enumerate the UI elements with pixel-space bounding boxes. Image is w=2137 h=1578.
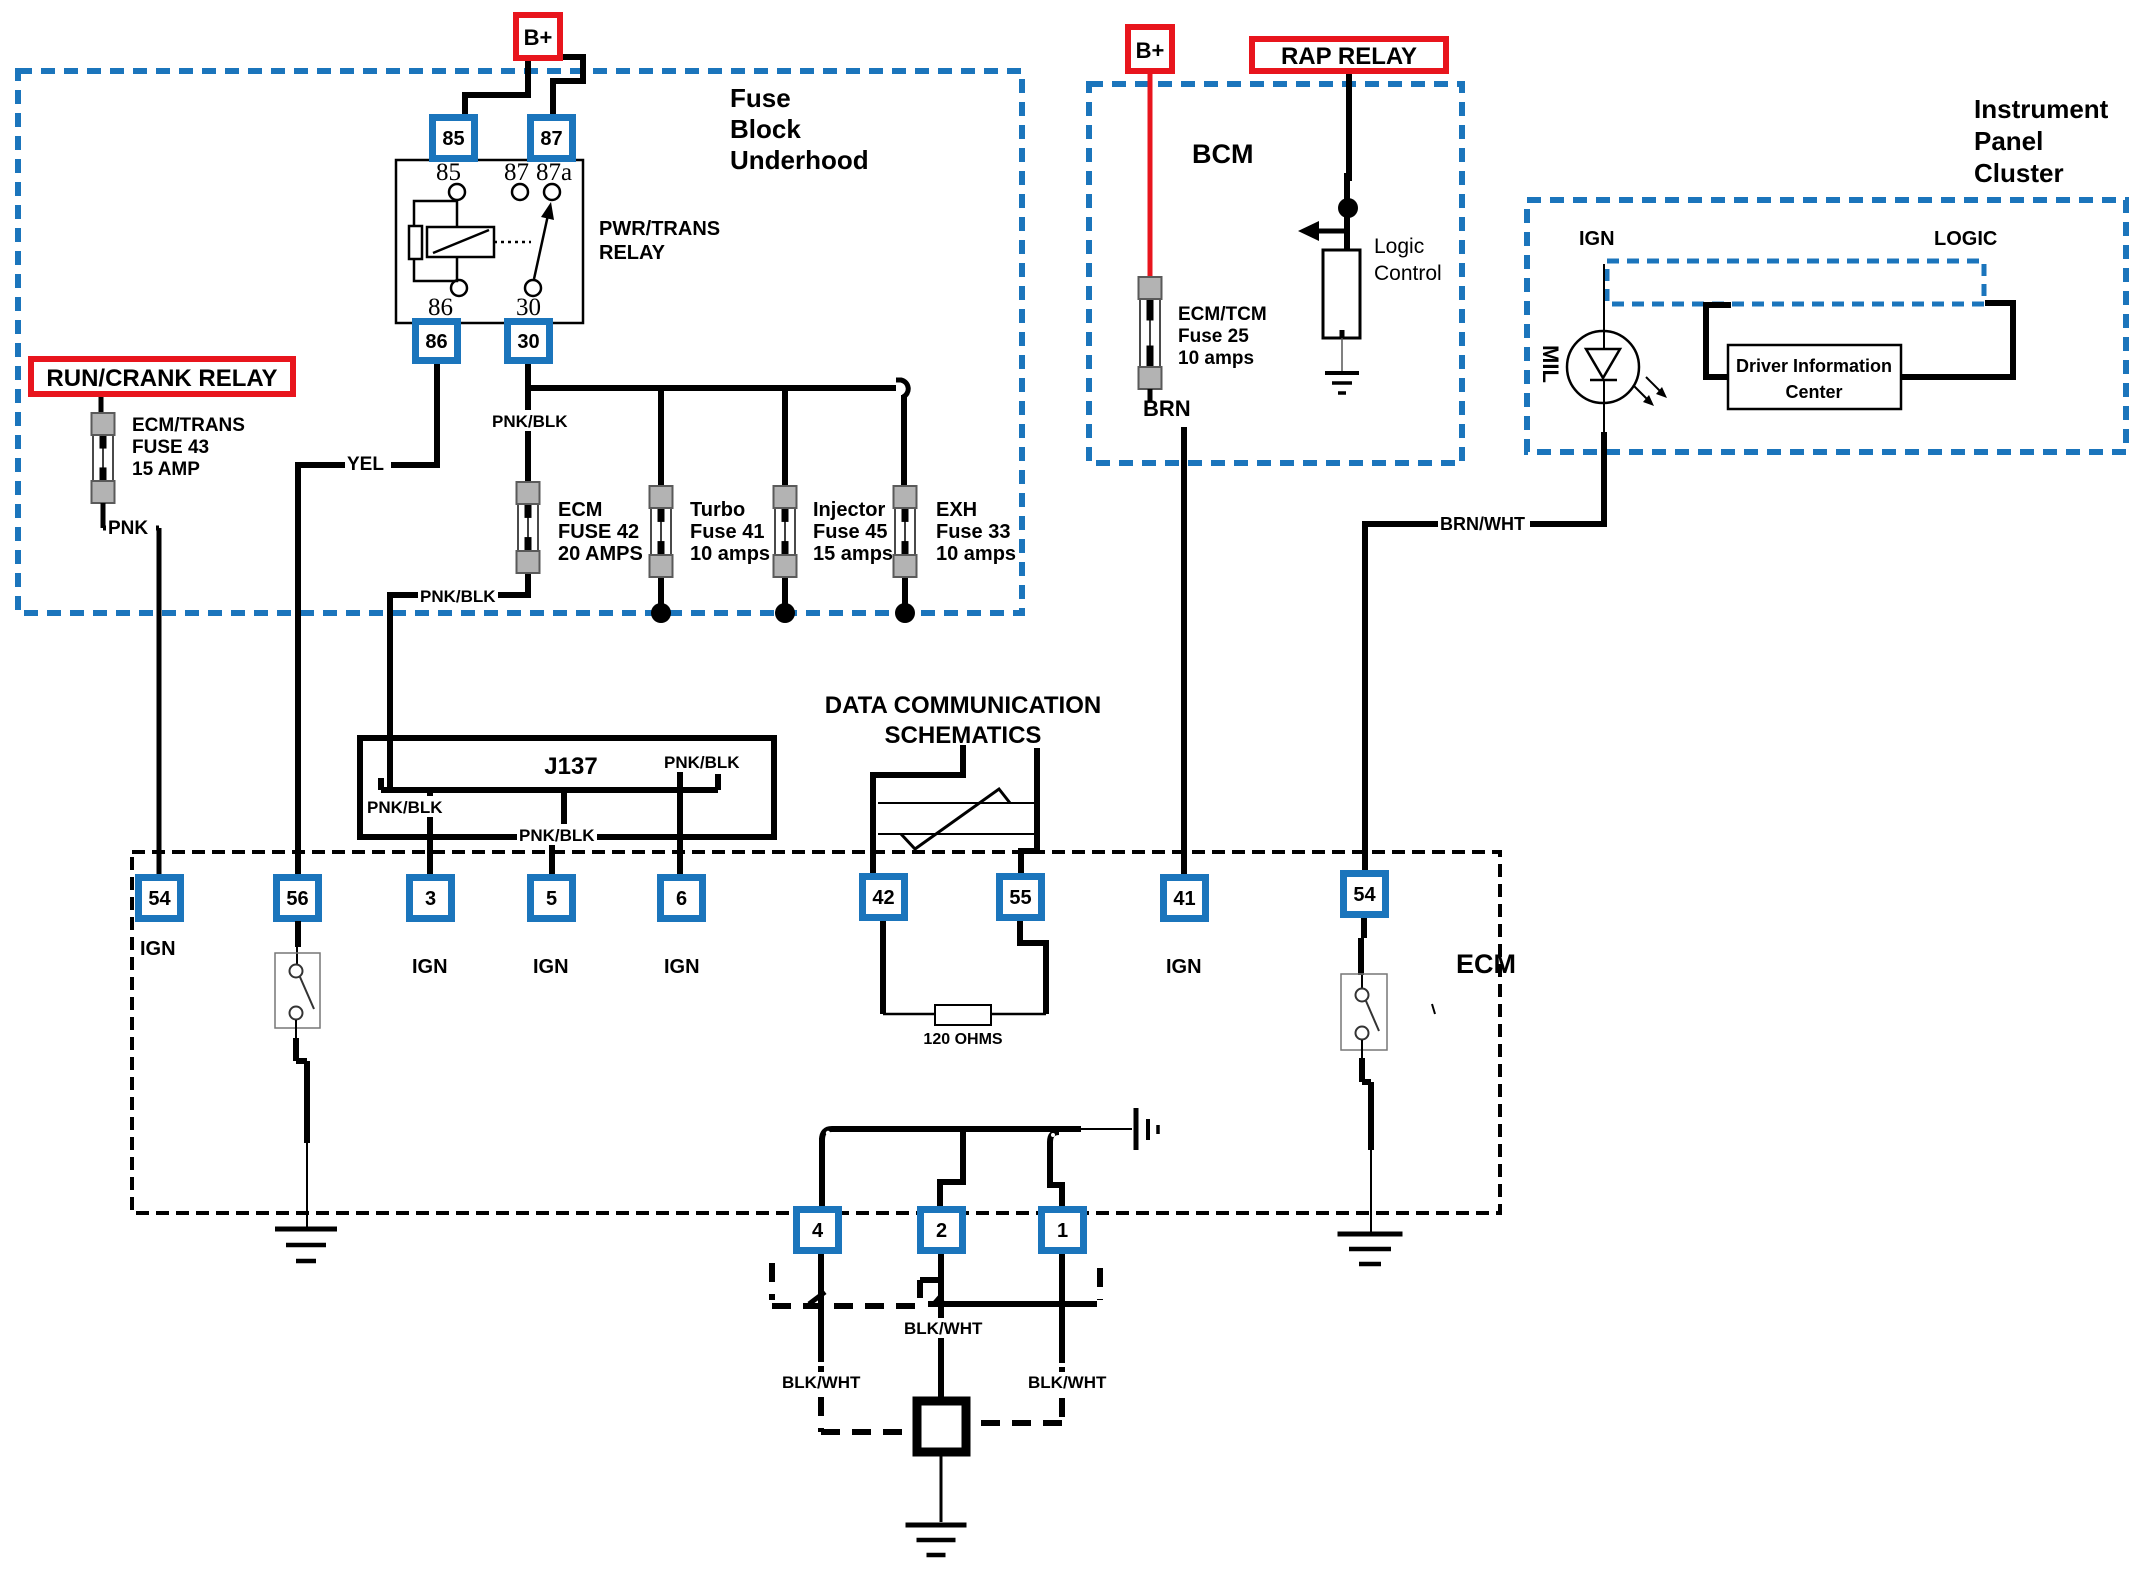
wire bus drop to Injector fuse [782,388,788,488]
wire splice to ground [940,1452,943,1522]
wire bus drop to EXH fuse [901,395,907,488]
svg-text:Fuse: Fuse [730,83,791,113]
svg-text:B+: B+ [1136,38,1165,63]
svg-text:54: 54 [148,888,171,910]
label 120 OHMS [923,1031,1002,1048]
svg-text:30: 30 [517,331,539,353]
svg-text:BCM: BCM [1192,139,1254,169]
svg-text:10 amps: 10 amps [690,543,770,565]
wire bus end hook [896,380,908,397]
svg-text:Logic: Logic [1374,235,1424,258]
fuse ECM/TCM Fuse 25 [1139,277,1162,389]
label LOGIC (IPC) [1934,228,1997,250]
svg-text:RUN/CRANK RELAY: RUN/CRANK RELAY [46,365,277,392]
wire RUN/CRANK relay to fuse 43 [99,397,104,415]
ground ECM pin 56 [275,1229,337,1261]
lamp MIL circle [1567,331,1639,403]
svg-text:42: 42 [872,887,894,909]
relay terminal circle 30 [525,280,541,296]
harness dashed pin 1 to splice [966,1367,1062,1423]
ECM pin 42 [859,873,908,921]
wire PNK fuse 43 to ECM pin 54 [103,503,159,877]
splice block G1 [917,1401,966,1452]
svg-text:10 amps: 10 amps [1178,348,1254,369]
data bus symbol zigzag [901,789,1010,849]
junction dot Injector [775,603,795,623]
svg-text:IGN: IGN [533,956,569,978]
svg-text:SCHEMATICS: SCHEMATICS [885,722,1042,749]
wire ECM fuse 42 to PNK/BLK to J137 [390,570,528,792]
svg-text:Fuse 25: Fuse 25 [1178,326,1249,347]
svg-text:Instrument: Instrument [1974,94,2109,124]
label BLK/WHT pin 4 [780,1372,864,1392]
svg-text:Control: Control [1374,262,1442,285]
relay PWR/TRANS outer box [396,160,583,323]
svg-text:YEL: YEL [347,454,384,475]
svg-text:PNK/BLK: PNK/BLK [519,826,595,845]
wire relay pin 30 to fuse bus [525,362,531,482]
label Turbo Fuse 41 10 amps [690,499,770,565]
wire pin 4 lead [818,1254,824,1362]
Instrument Panel Cluster container box [1527,200,2126,452]
wire DATA COMM to ECM pin 55 [1021,748,1037,877]
wire bus to pin 1 [1050,1132,1062,1206]
component Logic Control box [1323,250,1360,338]
relay terminal circle 85 [449,184,465,200]
svg-text:Center: Center [1785,382,1842,402]
wire logic control to ground [1340,330,1345,371]
svg-text:MIL: MIL [1538,345,1563,383]
label box RUN/CRANK RELAY [28,356,296,397]
Fuse Block Underhood container box [18,71,1022,613]
label box RAP RELAY [1249,36,1449,74]
svg-text:85: 85 [436,159,461,186]
ECM pin 54 left [135,874,184,922]
wire DIC left bracket [1703,305,1731,377]
svg-text:Turbo: Turbo [690,499,745,521]
label box B+ top [513,12,563,61]
svg-text:Driver Information: Driver Information [1736,356,1892,376]
relay internal wiring [414,200,457,281]
svg-text:IGN: IGN [140,938,176,960]
label ECM FUSE 42 20 AMPS [558,499,643,565]
label BRN [1143,396,1191,421]
wire bus drop to Turbo fuse [658,388,664,488]
svg-text:20 AMPS: 20 AMPS [558,543,643,565]
svg-text:BLK/WHT: BLK/WHT [1028,1373,1107,1392]
harness dashed bracket pin 2 [920,1280,944,1298]
label PNK [106,516,156,539]
relay pin box 86 [412,318,461,364]
svg-text:EXH: EXH [936,499,977,521]
relay pin box 30 [504,318,553,364]
wire EXH fuse to junction [902,574,908,610]
svg-text:87: 87 [540,128,562,150]
relay pin label 86 (internal) [428,294,453,321]
relay pin label 87a (internal) [536,159,572,186]
wire bottom ground bus [822,1129,1081,1140]
switch S1 under pin 56 [275,953,320,1028]
ECM pin 1 [1038,1206,1087,1254]
svg-text:87a: 87a [536,159,572,186]
svg-text:41: 41 [1173,888,1195,910]
svg-text:Block: Block [730,114,801,144]
label IGN pin 6 [664,956,700,978]
svg-text:1: 1 [1057,1220,1068,1242]
svg-text:ECM: ECM [1456,949,1516,979]
wire shield bus horizontal [928,1301,1097,1307]
label Instrument Panel Cluster [1974,94,2109,188]
wire arrow stub left [1298,221,1350,241]
svg-text:6: 6 [676,888,687,910]
label EXH Fuse 33 10 amps [936,499,1016,565]
svg-text:PNK/BLK: PNK/BLK [420,587,496,606]
svg-text:FUSE 42: FUSE 42 [558,521,639,543]
svg-text:J137: J137 [544,753,597,780]
harness arrow pin 2 [928,1292,945,1307]
label BLK/WHT pin 2 [902,1318,986,1338]
svg-text:Fuse 41: Fuse 41 [690,521,764,543]
svg-text:BLK/WHT: BLK/WHT [782,1373,861,1392]
svg-text:10 amps: 10 amps [936,543,1016,565]
wire bus to chassis ground [1081,1128,1132,1130]
svg-text:85: 85 [442,128,464,150]
ground splice bottom [906,1525,967,1555]
fuse ECM/TRANS FUSE 43 [92,413,115,503]
label Logic Control [1374,235,1442,285]
label PNK/BLK at relay pin 30 [490,410,570,431]
fuse ECM FUSE 42 [517,482,540,573]
label BRN/WHT [1438,512,1530,534]
wire pin 42 to resistor [883,921,935,1014]
svg-text:15 AMP: 15 AMP [132,459,200,480]
label box B+ BCM [1125,24,1175,74]
wire Injector fuse to junction [782,574,788,610]
relay pin label 30 (internal) [516,294,541,321]
label ECM/TRANS FUSE 43 15 AMP [132,415,245,480]
svg-text:ECM: ECM [558,499,602,521]
svg-text:120 OHMS: 120 OHMS [923,1031,1002,1048]
label Fuse Block Underhood [730,83,869,175]
svg-text:86: 86 [425,331,447,353]
svg-text:56: 56 [286,888,308,910]
relay pin label 87 (internal) [504,159,529,186]
label J137 [544,753,597,780]
data bus symbol lines [878,803,1034,834]
stray tick mark [1432,1004,1435,1014]
svg-text:DATA COMMUNICATION: DATA COMMUNICATION [825,692,1101,719]
resistor 120 OHMS [935,1005,991,1025]
wire fuse 25 stub [1148,389,1153,401]
junction dot RAP wire [1338,198,1358,218]
svg-text:Panel: Panel [1974,126,2043,156]
harness dashed right L [1097,1268,1103,1300]
label PNK/BLK below ECM fuse 42 [418,585,498,606]
IPC inner logic connector box [1607,261,1984,304]
BCM container box [1089,84,1462,463]
svg-text:4: 4 [812,1220,824,1242]
svg-text:86: 86 [428,294,453,321]
relay coil box [427,227,494,257]
wire bus to pin 2 [940,1129,963,1206]
label IGN pin 41 [1166,956,1202,978]
label DATA COMMUNICATION SCHEMATICS [825,692,1101,749]
svg-text:PWR/TRANS: PWR/TRANS [599,218,720,240]
label BCM [1192,139,1254,169]
svg-text:PNK/BLK: PNK/BLK [492,412,568,431]
label IGN pin 54 [140,938,176,960]
ground ECM pin 54 right [1338,1234,1403,1264]
svg-text:Injector: Injector [813,499,885,521]
ECM pin 54 right [1340,870,1389,918]
wire Turbo fuse to junction [658,574,664,610]
svg-text:BRN: BRN [1143,396,1191,421]
svg-text:Fuse 45: Fuse 45 [813,521,887,543]
ECM pin 56 [273,874,322,922]
svg-text:2: 2 [936,1220,947,1242]
label YEL [345,452,391,475]
fuse Injector Fuse 45 [774,486,797,577]
svg-text:15 amps: 15 amps [813,543,893,565]
wire J137 bus to PNK/BLK label pin 5 [561,790,567,832]
wire RAP RELAY to logic control [1347,74,1349,258]
wire bus to pin 4 [819,1138,825,1206]
svg-text:ECM/TRANS: ECM/TRANS [132,415,245,436]
label ECM/TCM Fuse 25 10 amps [1178,304,1267,369]
svg-text:BRN/WHT: BRN/WHT [1440,514,1525,534]
wire pin 56 to switch [297,921,298,965]
harness dashed pin 4 to splice [821,1366,917,1432]
svg-text:54: 54 [1353,884,1376,906]
wire DATA COMM to ECM pin 42 [873,745,963,877]
switch S2 under pin 54 right [1341,974,1387,1050]
junction dot EXH [895,603,915,623]
svg-text:FUSE 43: FUSE 43 [132,437,209,458]
ECM pin 4 [793,1206,842,1254]
relay dotted actuator link [494,241,531,244]
svg-text:ECM/TCM: ECM/TCM [1178,304,1267,325]
wire switch right to ground [1362,1040,1371,1232]
svg-text:55: 55 [1009,887,1031,909]
wire J137 internal bus [381,774,718,790]
lamp MIL LED triangle [1586,332,1620,403]
svg-text:Cluster: Cluster [1974,158,2064,188]
label IGN pin 5 [533,956,569,978]
svg-text:IGN: IGN [1579,228,1615,250]
wire DIC right bracket [1901,303,2013,377]
svg-text:Underhood: Underhood [730,145,869,175]
svg-text:PNK/BLK: PNK/BLK [664,753,740,772]
wire MIL to BRN/WHT to ECM pin 54 [1365,403,1604,872]
svg-text:RAP RELAY: RAP RELAY [1281,43,1417,70]
wire pin 55 to resistor [991,921,1046,1014]
label IGN (IPC) [1579,228,1615,250]
relay terminal circle 87 [512,184,528,200]
chassis ground symbol [1136,1108,1158,1150]
svg-text:B+: B+ [524,25,553,50]
ECM pin 6 [657,874,706,922]
svg-text:5: 5 [546,888,557,910]
junction dot Turbo [651,603,671,623]
wire fuse bus horizontal [528,385,896,391]
wire pin 2 to splice [938,1254,944,1401]
label ECM [1456,949,1516,979]
ECM pin 3 [406,874,455,922]
wire BRN to ECM pin 41 [1181,427,1187,877]
relay coil resistor rect [409,226,422,259]
svg-text:30: 30 [516,294,541,321]
wire IGN to MIL lamp [1603,264,1605,332]
svg-text:IGN: IGN [664,956,700,978]
svg-text:PNK: PNK [108,518,148,539]
wire J137 to ECM pin 3 [427,790,433,877]
svg-text:IGN: IGN [1166,956,1202,978]
label PWR/TRANS RELAY [599,218,720,264]
relay terminal circle 86 [451,280,467,296]
label PNK/BLK J137 left [365,796,445,817]
relay pin box 87 [527,114,576,162]
label Injector Fuse 45 15 amps [813,499,893,565]
svg-text:87: 87 [504,159,529,186]
connector J137 box [360,738,774,837]
wire red B+ to ECM/TCM fuse 25 [1148,72,1153,280]
svg-text:RELAY: RELAY [599,242,666,264]
ECM pin 41 [1160,874,1209,922]
ECM pin 5 [527,874,576,922]
ground BCM logic control [1325,373,1359,393]
component Driver Information Center box [1728,345,1901,409]
wire B+ to relay pin 87 [553,57,583,120]
label PNK/BLK J137 bottom [517,824,597,845]
harness dashed left L [772,1263,920,1306]
label PNK/BLK J137 top right [662,751,742,772]
relay pin box 85 [429,114,478,162]
harness tick on pin 4 wire [809,1292,825,1304]
wire J137 PNK/BLK to ECM pin 6 [677,772,683,877]
fuse EXH Fuse 33 [894,486,917,577]
wire switch to ground left [296,1020,307,1227]
ECM pin 55 [996,873,1045,921]
wire pin 1 lead [1059,1254,1065,1363]
fuse Turbo Fuse 41 [650,486,673,577]
ECM container box [132,852,1500,1213]
ECM pin 2 [917,1206,966,1254]
svg-text:IGN: IGN [412,956,448,978]
wire PNK/BLK label to ECM pin 5 [549,840,555,877]
wire pin 54 to switch right [1361,918,1364,989]
svg-text:LOGIC: LOGIC [1934,228,1997,250]
label IGN pin 3 [412,956,448,978]
svg-text:BLK/WHT: BLK/WHT [904,1319,983,1338]
svg-text:3: 3 [425,888,436,910]
relay switch arm with arrow [534,202,554,279]
svg-text:Fuse 33: Fuse 33 [936,521,1010,543]
wire B+ to relay pin 85 [465,55,528,120]
wire YEL relay pin 86 to ECM pin 56 [298,362,437,877]
label MIL (rotated) [1538,345,1563,383]
svg-text:PNK/BLK: PNK/BLK [367,798,443,817]
relay pin label 85 (internal) [436,159,461,186]
label BLK/WHT pin 1 [1026,1372,1110,1392]
lamp MIL light arrows [1633,377,1667,406]
relay terminal circle 87a [544,184,560,200]
